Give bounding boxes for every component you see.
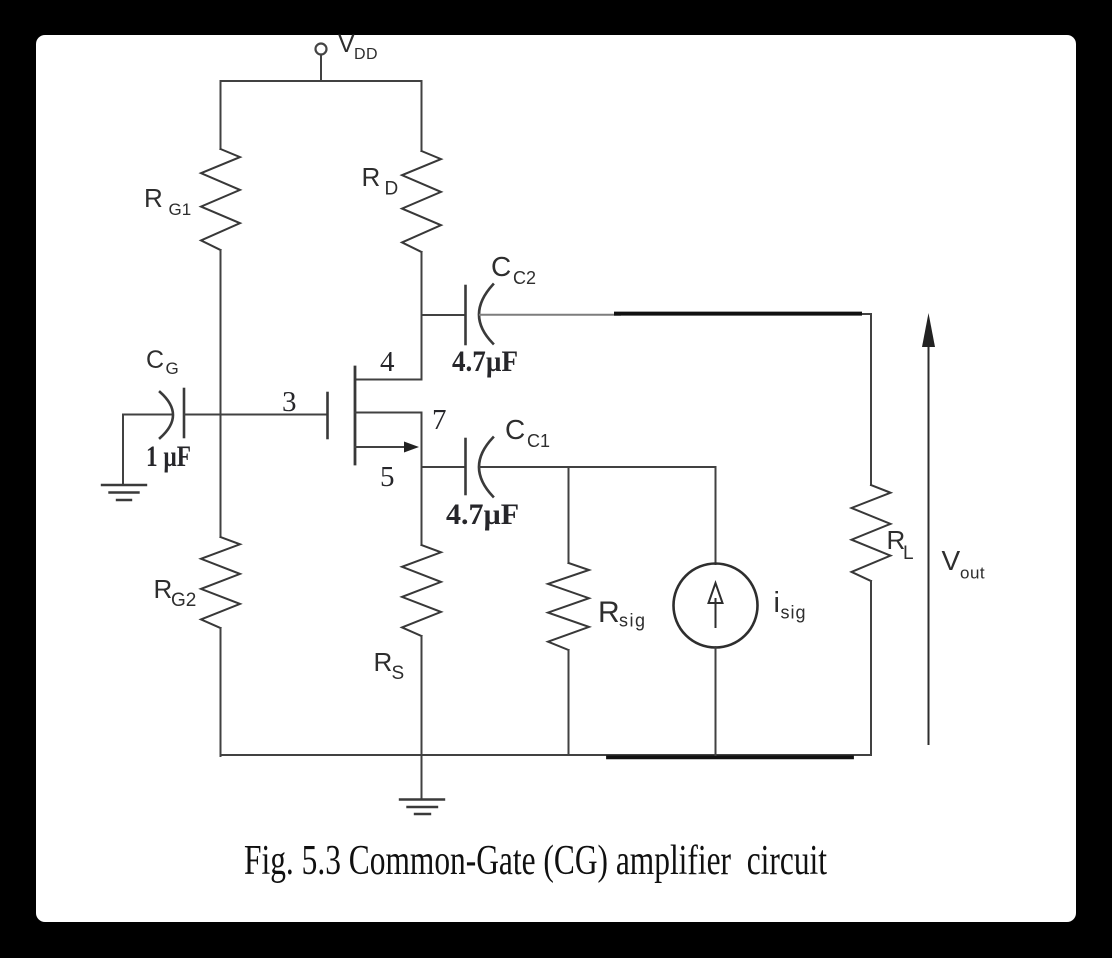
svg-text:1 µF: 1 µF [146,440,191,473]
transistor M1 channel bar [354,367,357,464]
wire bottom rail bold segment [608,755,852,759]
wire output top [480,314,620,316]
wire Rsig branch lower [568,650,570,755]
svg-text:C: C [146,346,164,374]
svg-text:C: C [491,251,511,282]
svg-text:R: R [154,574,173,604]
transistor M1 arrow [404,442,419,453]
svg-text:R: R [374,647,393,677]
wire left branch middle [220,250,222,537]
transistor M1 gate bar [326,393,329,438]
wire right branch upper [421,81,423,151]
resistor Rsig [548,563,589,650]
svg-text:DD: DD [354,46,378,63]
resistor RD [402,151,441,252]
wire gate input left [123,414,172,416]
svg-text:R: R [598,596,620,629]
capacitor CC1 [466,438,494,497]
power terminal VDD [316,44,327,55]
resistor RL [852,485,891,581]
current source isig [674,564,758,648]
wire source branch [421,413,423,546]
Vout arrow [922,313,935,744]
wire signal rail [480,466,716,468]
svg-text:V: V [942,545,961,576]
wire output top right [856,313,871,315]
svg-text:4.7µF: 4.7µF [446,498,519,531]
svg-text:4.7µF: 4.7µF [452,345,518,378]
wire RS lower [421,636,423,799]
transistor M1 body stub node 7 [355,412,422,414]
wire gate input right [185,414,328,416]
svg-text:V: V [338,30,355,58]
svg-text:i: i [774,587,780,619]
svg-text:5: 5 [380,461,395,493]
svg-text:G: G [166,359,179,378]
wire left branch upper [220,81,222,149]
wire Rsig branch upper [568,467,570,563]
wire RL branch upper [870,314,872,485]
wire CC2 input [422,314,465,316]
capacitor CC2 [466,285,494,345]
svg-text:C1: C1 [527,431,550,451]
svg-text:4: 4 [380,346,395,378]
wire drain stub [355,379,422,381]
ground main [400,800,444,815]
svg-text:3: 3 [282,386,297,418]
wire CG ground drop [122,415,124,486]
svg-text:7: 7 [432,404,447,436]
transistor M1 source stub [355,446,408,448]
wire VDD stub [320,56,322,82]
svg-text:Fig. 5.3 Common-Gate (CG) ampl: Fig. 5.3 Common-Gate (CG) amplifier circ… [244,838,827,884]
svg-text:S: S [392,663,405,684]
svg-text:C: C [505,414,525,445]
wire left branch lower [220,628,222,756]
resistor RG2 [201,537,240,628]
wire top rail [221,80,422,82]
wire CC1 input [422,466,465,468]
svg-text:D: D [385,179,399,200]
capacitor CG [160,389,184,438]
svg-text:R: R [362,162,381,192]
wire output top bold segment [616,312,860,316]
resistor RS [402,545,441,636]
ground CG [102,485,146,500]
svg-text:C2: C2 [513,268,536,288]
wire isig branch lower [715,647,717,755]
svg-text:L: L [903,543,914,564]
wire isig branch upper [715,467,717,564]
svg-text:G2: G2 [171,590,196,611]
svg-text:sig: sig [619,611,647,631]
svg-text:sig: sig [781,603,807,623]
svg-text:G1: G1 [169,200,192,219]
svg-text:out: out [960,564,985,583]
wire bottom rail [221,754,872,756]
svg-text:R: R [144,183,163,213]
wire drain branch [421,252,423,380]
resistor RG1 [201,149,240,250]
wire RL branch lower [870,581,872,755]
